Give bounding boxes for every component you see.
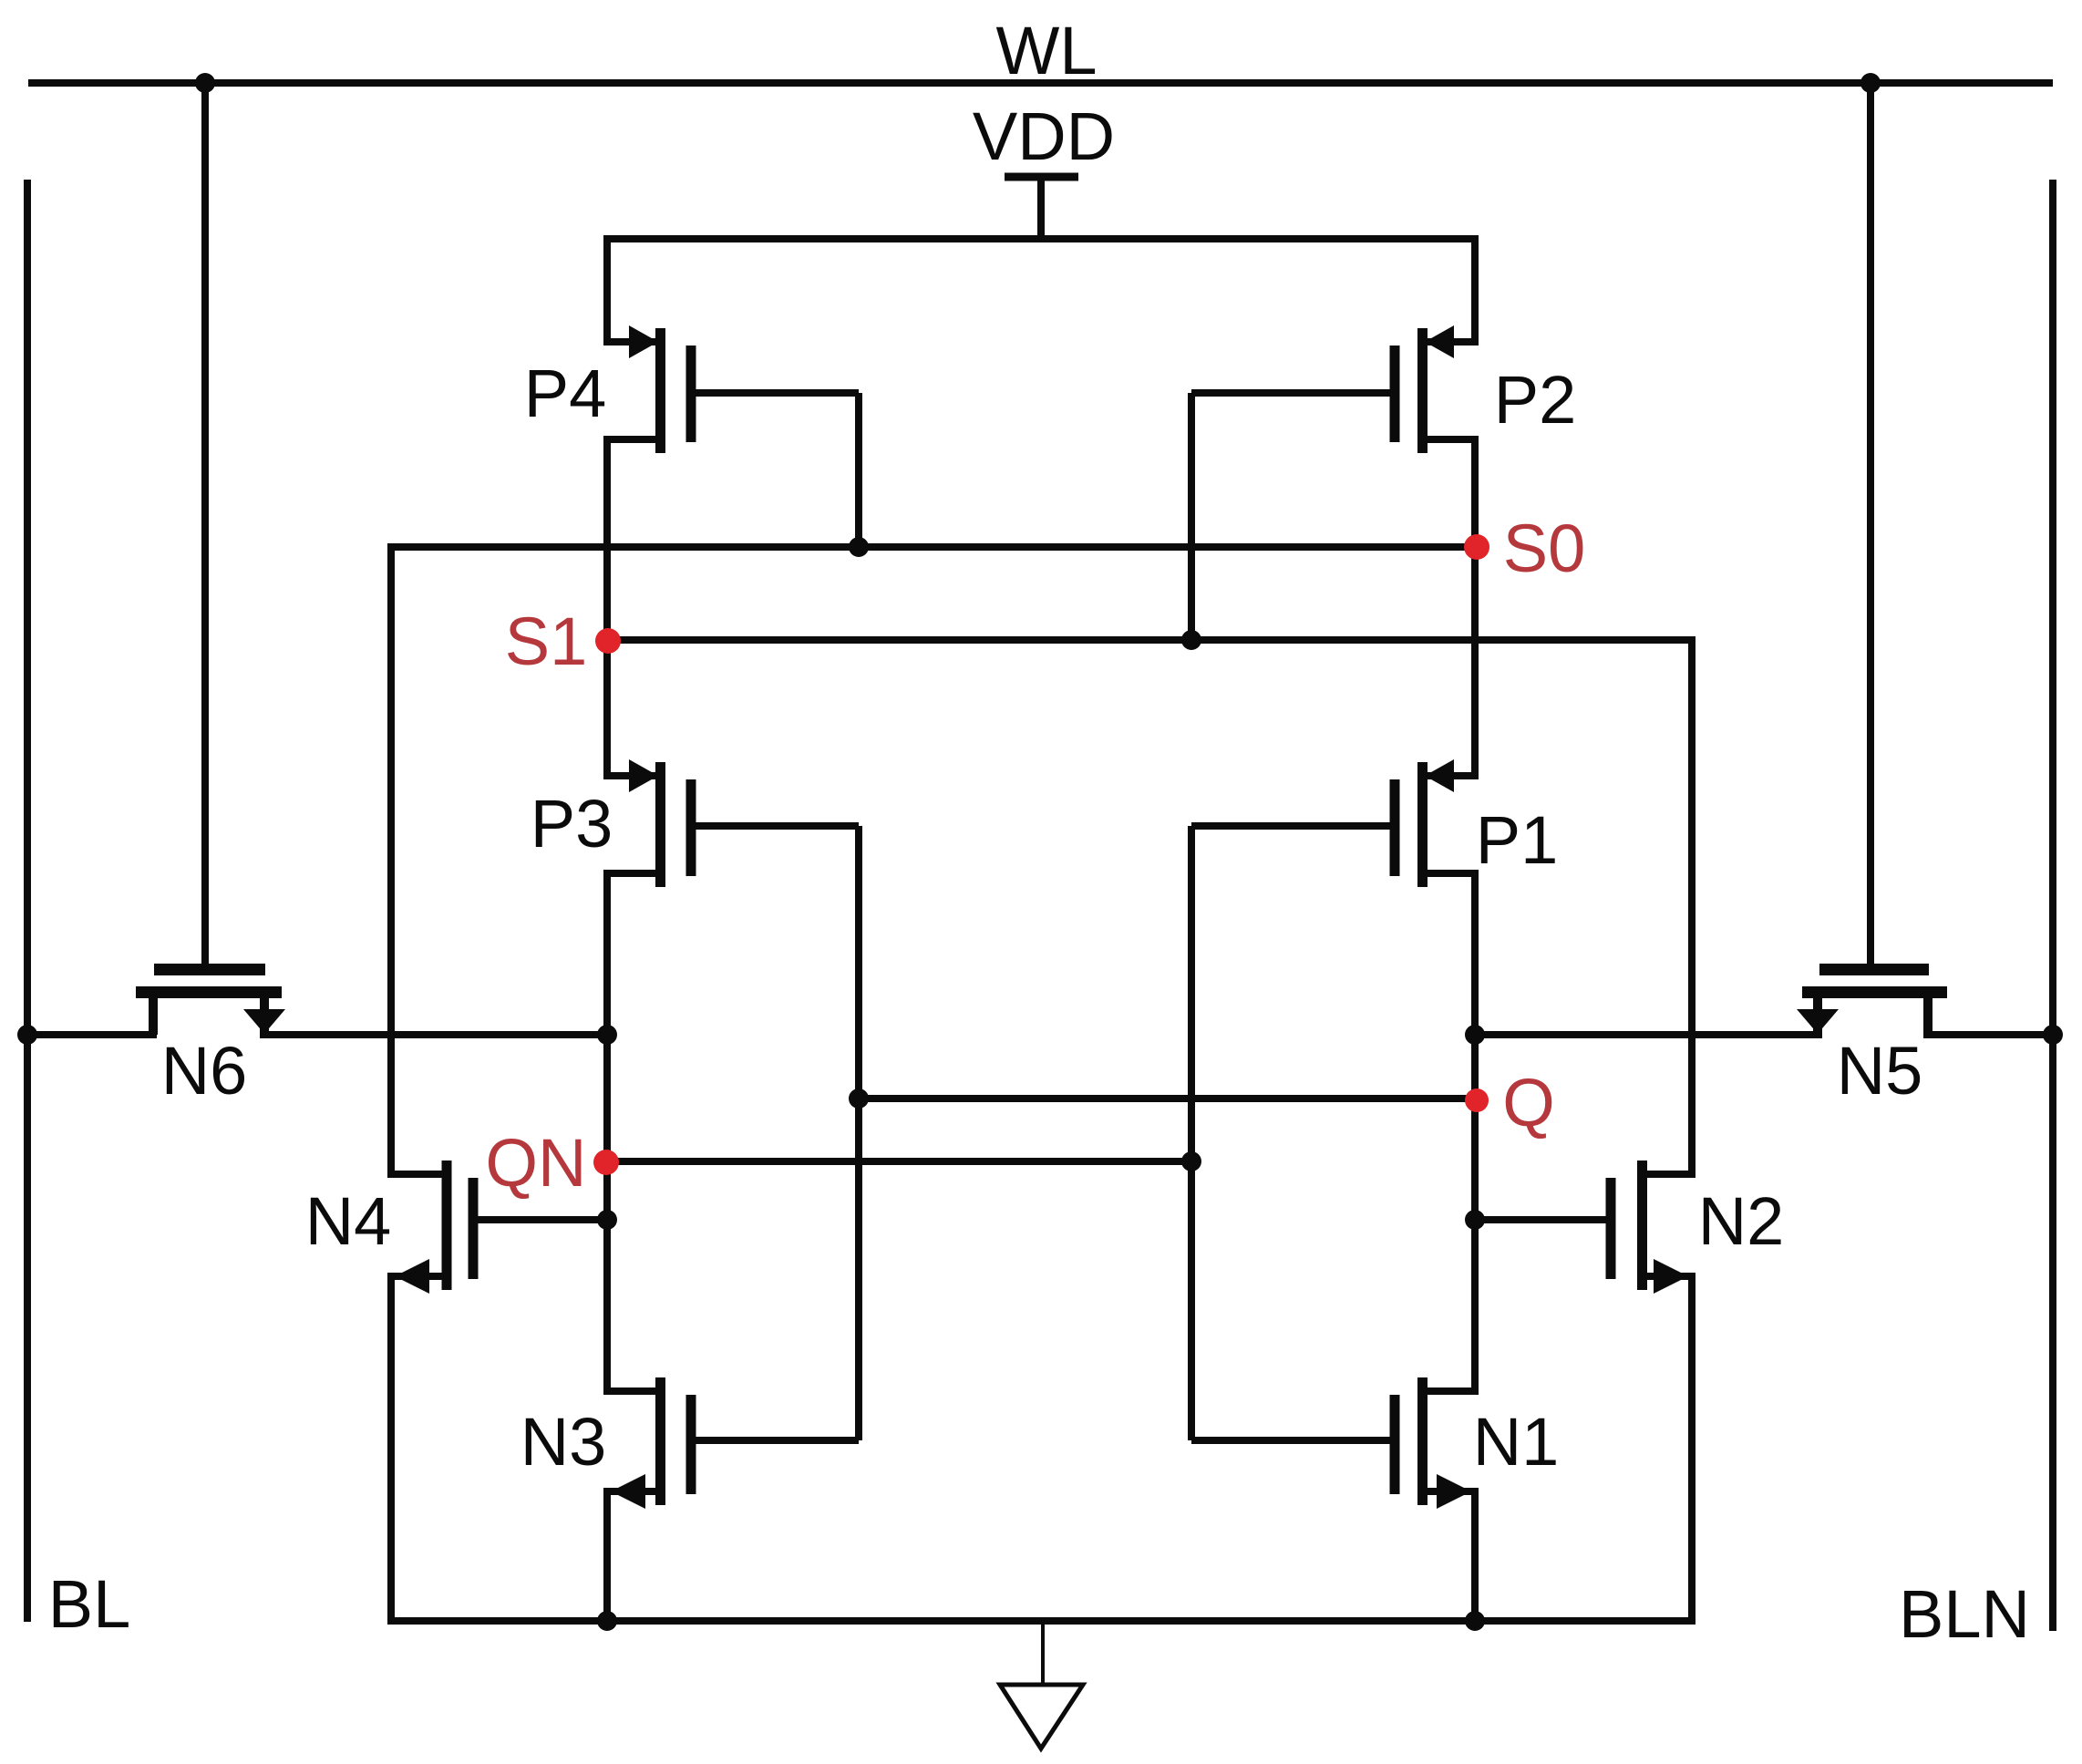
transistor N2 xyxy=(1475,1161,1695,1294)
wire N1 source to ground rail xyxy=(1471,1491,1479,1621)
wire P4 gate to S0 xyxy=(855,393,862,547)
svg-text:N1: N1 xyxy=(1473,1404,1560,1480)
wire WL word line xyxy=(28,79,2053,87)
transistor N4 xyxy=(387,1161,607,1294)
junction P4 gate on S0 xyxy=(849,537,869,557)
svg-text:S0: S0 xyxy=(1503,511,1586,586)
svg-text:BLN: BLN xyxy=(1899,1576,2030,1652)
power VDD symbol bar xyxy=(1005,173,1078,181)
wire N2 source to ground rail xyxy=(1688,1273,1695,1621)
svg-text:N3: N3 xyxy=(520,1404,607,1480)
junction N1 source on rail xyxy=(1465,1611,1485,1631)
transistor N5 xyxy=(1797,964,1947,1035)
transistor N6 xyxy=(136,964,285,1035)
wire WL to N5 gate xyxy=(1867,79,1874,968)
svg-text:P2: P2 xyxy=(1494,362,1577,438)
wire P1 gate / N1 gate to QN xyxy=(1188,826,1195,1440)
wire S0 line xyxy=(391,543,1475,551)
node S1 dot xyxy=(595,628,621,654)
wire N4 source to ground rail xyxy=(387,1273,395,1621)
svg-text:N5: N5 xyxy=(1837,1033,1923,1109)
junction WL / N5 gate xyxy=(1860,73,1881,93)
node QN dot xyxy=(593,1150,619,1175)
transistor N1 xyxy=(1191,1377,1479,1509)
transistor P4 xyxy=(603,325,859,453)
wire VDD rail to P4/P2 sources xyxy=(607,239,1475,342)
junction P3-N3 gate on Q line xyxy=(849,1088,869,1109)
wire S0 to N4 drain xyxy=(387,543,395,1178)
svg-text:N6: N6 xyxy=(161,1033,248,1109)
svg-text:QN: QN xyxy=(486,1125,587,1201)
junction BLN / N5 source xyxy=(2043,1025,2063,1045)
wire N5 to BLN xyxy=(1923,1031,2053,1038)
transistor P3 xyxy=(603,759,859,887)
wire P3 gate / N3 gate to Q xyxy=(855,826,862,1440)
ground xyxy=(1000,1621,1083,1749)
wire WL to N6 gate xyxy=(201,79,209,968)
wire S1 to N2 drain xyxy=(1688,636,1695,1178)
transistor N3 xyxy=(603,1377,859,1509)
wire S1 line xyxy=(607,636,1692,644)
junction P1-N1 gate on QN line xyxy=(1181,1151,1201,1171)
svg-text:P3: P3 xyxy=(531,786,613,861)
svg-text:P1: P1 xyxy=(1476,802,1559,878)
wire P2 gate to S1 xyxy=(1188,393,1195,640)
svg-text:VDD: VDD xyxy=(973,98,1115,174)
svg-text:WL: WL xyxy=(996,13,1098,88)
node Q dot xyxy=(1465,1088,1489,1112)
junction N2 gate on Q column xyxy=(1465,1210,1485,1230)
wire BLN bit line xyxy=(2049,180,2056,1631)
junction N3 source on rail xyxy=(597,1611,617,1631)
junction BL / N6 source xyxy=(17,1025,37,1045)
wire P2 drain to S0 node xyxy=(1471,439,1479,779)
svg-text:Q: Q xyxy=(1502,1065,1555,1140)
wire P3 drain to QN column xyxy=(603,873,611,1391)
wire ground rail xyxy=(387,1617,1695,1625)
transistor P2 xyxy=(1191,325,1479,453)
wire P4 drain to S1 node xyxy=(603,439,611,779)
junction WL / N6 gate xyxy=(195,73,215,93)
junction N6 drain on QN column xyxy=(597,1025,617,1045)
svg-text:N2: N2 xyxy=(1698,1183,1785,1259)
junction P2 gate on S1 xyxy=(1181,630,1201,650)
wire VDD stem xyxy=(1037,177,1045,239)
wire N6 to QN column xyxy=(260,1031,607,1038)
wire Q column to N5 xyxy=(1475,1031,1822,1038)
junction N5 on Q column xyxy=(1465,1025,1485,1045)
wire QN line xyxy=(607,1158,1191,1165)
wire N3 source to ground rail xyxy=(603,1491,611,1621)
svg-text:P4: P4 xyxy=(524,356,607,431)
svg-text:BL: BL xyxy=(48,1566,131,1642)
transistor P1 xyxy=(1191,759,1479,887)
svg-text:S1: S1 xyxy=(505,603,588,679)
wire BL bit line xyxy=(24,180,31,1622)
node S0 dot xyxy=(1464,534,1489,560)
wire P1 drain to Q column xyxy=(1471,873,1479,1391)
junction N4 gate on QN column xyxy=(597,1210,617,1230)
wire BL to N6 xyxy=(24,1031,157,1038)
wire Q line xyxy=(859,1095,1475,1102)
svg-text:N4: N4 xyxy=(305,1183,392,1259)
